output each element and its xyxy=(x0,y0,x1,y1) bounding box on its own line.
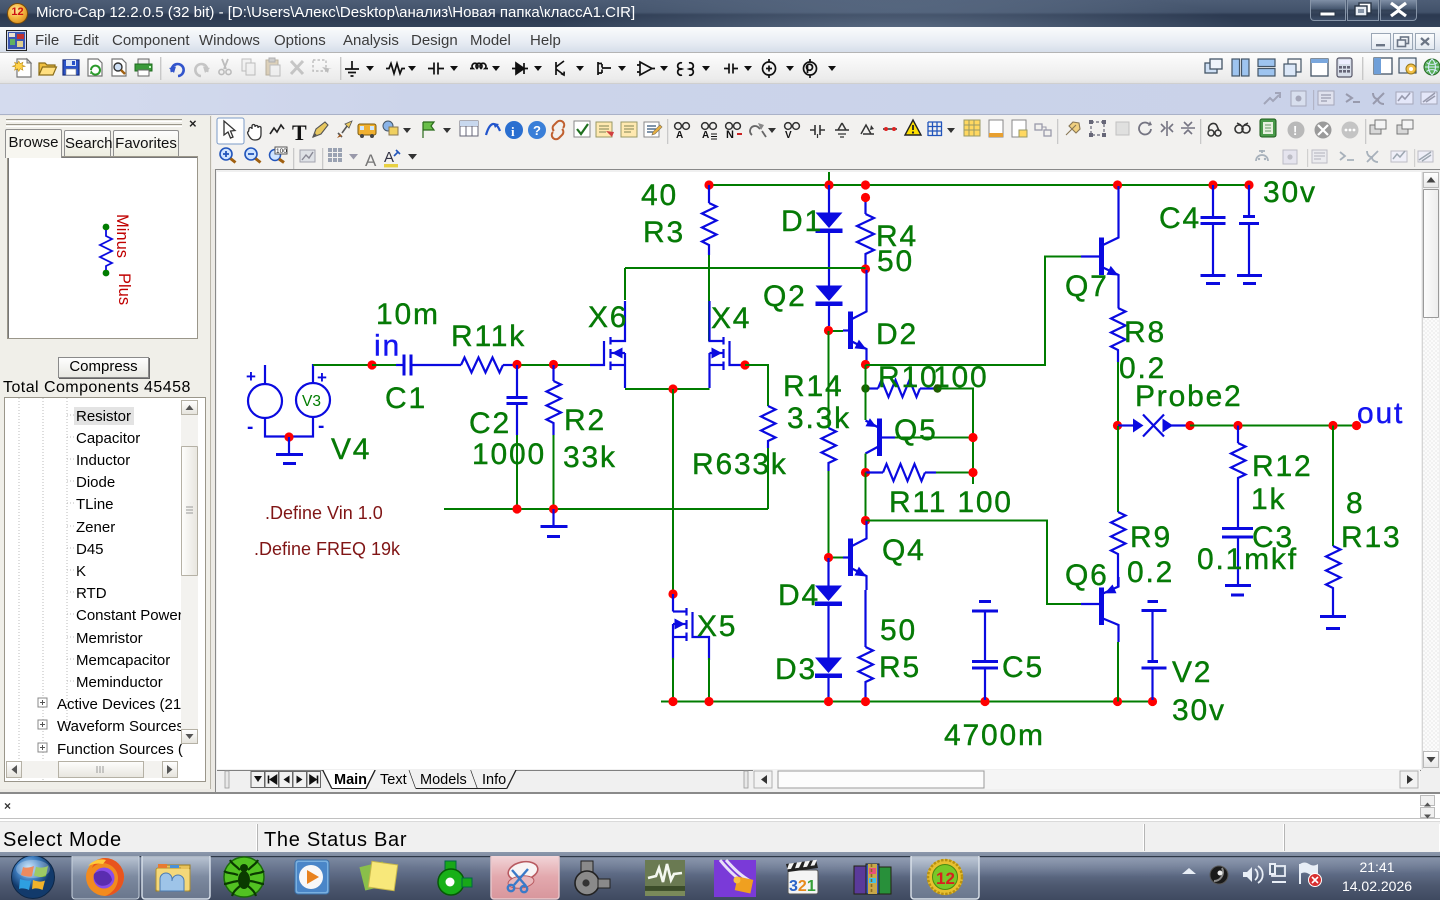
svg-text:-: - xyxy=(247,417,253,438)
row4 right grayed xyxy=(1256,149,1433,167)
wire R6 hook xyxy=(745,365,768,406)
svg-text:100: 100 xyxy=(276,148,287,155)
wire D2e to Q7 base xyxy=(866,257,1082,366)
resistor R6 xyxy=(761,406,776,509)
wire R10 right to Q5 base xyxy=(938,389,974,485)
ground mid xyxy=(541,509,568,537)
resistor R11 xyxy=(866,464,974,481)
mpc 321 xyxy=(786,860,818,895)
svg-text:D1: D1 xyxy=(781,205,823,238)
svg-text:Info: Info xyxy=(482,772,506,788)
node dot X4 gate xyxy=(740,360,749,369)
wire R3 to X4 drain xyxy=(708,255,710,341)
spider xyxy=(224,857,264,897)
svg-text:Models: Models xyxy=(420,772,467,788)
node dot probe left xyxy=(1113,421,1122,430)
node dot R12 top xyxy=(1233,421,1242,430)
svg-text:R11 100: R11 100 xyxy=(889,486,1013,519)
gray cam xyxy=(575,861,610,895)
dropdown arrows xyxy=(366,66,836,71)
svg-text:Resistor: Resistor xyxy=(76,408,131,425)
svg-text:14.02.2026: 14.02.2026 xyxy=(1342,878,1412,894)
wire tail down to X5 xyxy=(672,389,674,594)
resistor R4 xyxy=(857,198,874,266)
svg-text:Minus: Minus xyxy=(113,214,131,258)
svg-text:12: 12 xyxy=(936,869,955,888)
svg-text:50: 50 xyxy=(880,614,917,647)
save xyxy=(63,60,79,75)
resistor R2 xyxy=(547,365,562,509)
node dot R11 right xyxy=(968,468,977,477)
svg-text:Diode: Diode xyxy=(76,474,115,491)
node dot Q4 base / D4 top xyxy=(824,553,833,562)
svg-text:21:41: 21:41 xyxy=(1359,859,1394,875)
resistor R9 xyxy=(1111,426,1126,586)
svg-text:Q7: Q7 xyxy=(1065,270,1109,303)
animeter probe Probe2 xyxy=(1118,415,1190,437)
print xyxy=(135,59,152,76)
svg-text:R9: R9 xyxy=(1130,521,1172,554)
svg-text:Text: Text xyxy=(380,772,407,788)
diode Q2 xyxy=(816,286,843,327)
row3: select tool pressed xyxy=(217,118,244,144)
mosfet X6 xyxy=(590,301,625,388)
wire Q6 emitter to rail xyxy=(1117,642,1119,702)
mc doc icon xyxy=(6,30,27,51)
waveform tile xyxy=(645,860,685,896)
svg-text:K: K xyxy=(76,563,86,580)
svg-text:Probe2: Probe2 xyxy=(1135,380,1243,413)
resistor R10 xyxy=(866,380,937,397)
wire bottom negative rail xyxy=(661,701,1153,703)
source V4a xyxy=(246,365,313,438)
svg-text:R8: R8 xyxy=(1124,316,1166,349)
svg-text:X6: X6 xyxy=(588,301,628,334)
svg-text:R13: R13 xyxy=(1341,521,1401,554)
source V3 xyxy=(296,364,330,437)
new xyxy=(13,59,32,77)
svg-text:Q4: Q4 xyxy=(882,534,926,567)
wire out net xyxy=(1190,425,1357,427)
node dot out end xyxy=(1352,421,1361,430)
wire X5 source to rail xyxy=(672,658,674,702)
svg-text:A: A xyxy=(384,149,394,166)
node dot rail-Q7 xyxy=(1113,180,1122,189)
svg-text:3.3k: 3.3k xyxy=(787,402,851,435)
svg-text:Meminductor: Meminductor xyxy=(76,674,163,691)
capacitor C5 xyxy=(972,602,998,701)
mosfet X4 xyxy=(710,301,745,388)
svg-text:-: - xyxy=(318,416,324,437)
svg-text:in: in xyxy=(374,330,401,363)
svg-text:Memristor: Memristor xyxy=(76,630,143,647)
resistor R13 xyxy=(1326,546,1341,615)
svg-text:R12: R12 xyxy=(1252,450,1312,483)
title bar xyxy=(0,0,1440,27)
menu bar xyxy=(0,27,1440,53)
green valve xyxy=(438,861,472,895)
wire Q5 column upper xyxy=(865,365,867,420)
diode D1 xyxy=(816,185,843,286)
svg-text:1k: 1k xyxy=(1251,483,1286,516)
node dot rail-D1 xyxy=(824,180,833,189)
resistor R14 xyxy=(822,331,837,557)
node dot R4 top xyxy=(861,193,870,202)
tabs xyxy=(323,770,516,789)
node dark R10 left xyxy=(861,384,869,392)
wire R13 column xyxy=(1332,426,1334,547)
preview resistor symbol xyxy=(100,214,133,305)
svg-text:N: N xyxy=(726,129,734,141)
row 4 xyxy=(220,148,236,163)
node dot R11 left xyxy=(861,468,870,477)
capacitor C1 xyxy=(372,355,435,376)
svg-text:R10: R10 xyxy=(878,361,938,394)
paste gray xyxy=(266,58,280,76)
left panel xyxy=(0,116,211,789)
purple tile xyxy=(714,860,756,897)
resistor R8 xyxy=(1111,308,1126,425)
delete gray xyxy=(291,61,303,74)
node dot R2 bottom xyxy=(549,504,558,513)
speaker xyxy=(1243,866,1263,883)
node dot rail-R3 xyxy=(704,180,713,189)
wire stub above rail xyxy=(828,172,830,185)
revert xyxy=(88,59,102,76)
caption buttons xyxy=(1310,0,1346,21)
wire X6 drain vertical xyxy=(624,268,626,300)
node dot Q5 base xyxy=(968,433,977,442)
svg-text:?: ? xyxy=(533,123,541,138)
svg-text:1000: 1000 xyxy=(472,438,546,471)
svg-text:Main: Main xyxy=(334,772,367,788)
wire V3 to in xyxy=(313,364,372,366)
svg-text:50: 50 xyxy=(877,245,914,278)
capacitor C2 xyxy=(507,365,528,509)
node dot V4 gnd xyxy=(284,432,293,441)
node dark R10 right xyxy=(933,384,941,392)
svg-text:R5: R5 xyxy=(879,651,921,684)
svg-text:D4: D4 xyxy=(778,579,820,612)
svg-text:Plus: Plus xyxy=(115,273,133,305)
transistor Q6 (pnp) xyxy=(1047,577,1119,642)
node dot Q4 collector xyxy=(861,516,870,525)
diode D3 xyxy=(815,658,842,701)
firefox btn xyxy=(72,854,139,899)
svg-text:R14: R14 xyxy=(783,370,843,403)
node dot D2 emitter xyxy=(861,360,870,369)
svg-text:Active Devices (21): Active Devices (21) xyxy=(57,696,186,713)
svg-text:40: 40 xyxy=(641,179,678,212)
redo (gray) xyxy=(195,64,210,76)
resistor R12 xyxy=(1231,426,1246,528)
svg-text:+: + xyxy=(246,367,256,386)
flag xyxy=(1300,863,1322,887)
svg-text:30v: 30v xyxy=(1172,694,1226,727)
capacitor C4 xyxy=(1201,185,1226,284)
ground V4 xyxy=(276,437,303,464)
node dot X5 drain xyxy=(668,589,677,598)
svg-text:C5: C5 xyxy=(1002,651,1044,684)
svg-text:+: + xyxy=(317,368,327,387)
svg-text:8: 8 xyxy=(1346,487,1365,520)
open xyxy=(39,63,57,75)
transistor Q7 (npn) xyxy=(1081,186,1119,308)
svg-text:X5: X5 xyxy=(697,610,737,643)
node dot R2 top xyxy=(549,360,558,369)
svg-text:Memcapacitor: Memcapacitor xyxy=(76,652,170,669)
wire R1 to X6 gate xyxy=(517,364,590,366)
node dot tail xyxy=(668,384,677,393)
svg-text:R633k: R633k xyxy=(692,448,788,481)
svg-text:R11k: R11k xyxy=(451,320,526,353)
tray circle icon xyxy=(1210,866,1228,884)
microcap btn highlighted xyxy=(911,854,979,899)
svg-text:V2: V2 xyxy=(1172,656,1212,689)
transistor Q5 (pnp sideways) xyxy=(866,418,974,456)
ground below C3 xyxy=(1225,586,1251,596)
svg-text:Capacitor: Capacitor xyxy=(76,430,140,447)
wire X6 drain to R4 bottom xyxy=(625,267,866,269)
client bottom border with gap over Main tab xyxy=(217,770,1439,772)
svg-text:C2: C2 xyxy=(469,407,511,440)
winrar xyxy=(854,864,891,894)
sticky notes xyxy=(359,861,397,890)
svg-text:.Define FREQ 19k: .Define FREQ 19k xyxy=(254,539,401,559)
svg-text:V4: V4 xyxy=(331,433,371,466)
svg-text:.Define Vin 1.0: .Define Vin 1.0 xyxy=(265,503,383,523)
sep xyxy=(160,57,161,80)
network xyxy=(1269,863,1290,882)
svg-text:X4: X4 xyxy=(711,302,751,335)
undo xyxy=(169,64,184,76)
resistor R5 xyxy=(859,590,874,700)
svg-text:R2: R2 xyxy=(564,404,606,437)
diode D4 xyxy=(815,558,842,658)
mdi child buttons xyxy=(1371,33,1391,50)
svg-text:i: i xyxy=(511,124,515,139)
start orb xyxy=(12,856,55,899)
copy gray xyxy=(242,59,255,75)
svg-text:!: ! xyxy=(1293,123,1297,138)
mosfet X5 xyxy=(673,594,709,660)
explorer btn xyxy=(142,854,210,899)
capacitor C3 xyxy=(1222,529,1253,585)
svg-text:Zener: Zener xyxy=(76,519,115,536)
svg-text:T: T xyxy=(292,120,307,145)
svg-text:out: out xyxy=(1357,397,1404,430)
svg-text:R3: R3 xyxy=(643,216,685,249)
svg-text:Q6: Q6 xyxy=(1065,559,1109,592)
svg-text:10m: 10m xyxy=(376,298,440,331)
node dot in xyxy=(367,360,376,369)
capacitor C4b xyxy=(1237,185,1262,284)
node dot rail-C4b xyxy=(1244,180,1253,189)
schematic mdi child xyxy=(215,169,1440,793)
svg-text:30v: 30v xyxy=(1263,176,1317,209)
wire X5 gate to rail xyxy=(708,658,710,702)
node dot rail-C4a xyxy=(1208,180,1217,189)
window management icons xyxy=(1201,57,1440,80)
node dots bottom rail xyxy=(668,697,677,706)
cut gray xyxy=(219,59,231,75)
svg-text:A: A xyxy=(365,151,377,169)
resistor R3 xyxy=(702,185,717,255)
svg-text:33k: 33k xyxy=(563,441,617,474)
schematic h scrollbar xyxy=(753,770,1420,789)
panel h scrollbar xyxy=(6,761,178,778)
svg-text:4700m: 4700m xyxy=(944,719,1045,752)
wmp xyxy=(295,860,329,894)
svg-text:Q5: Q5 xyxy=(894,414,938,447)
scissors btn highlighted xyxy=(491,854,559,899)
ground below R13 xyxy=(1320,617,1346,629)
svg-text:0.2: 0.2 xyxy=(1127,556,1174,589)
svg-text:0.1mkf: 0.1mkf xyxy=(1197,543,1298,576)
tree v scrollbar xyxy=(181,400,198,744)
svg-text:D3: D3 xyxy=(775,653,817,686)
node dot probe right xyxy=(1185,421,1194,430)
component buttons xyxy=(345,59,817,78)
battery V2 xyxy=(1142,602,1167,701)
node dot C2 top xyxy=(512,360,521,369)
svg-text:D2: D2 xyxy=(876,318,918,351)
transistor D2 (npn) xyxy=(829,270,867,364)
wire X6/X4 sources join xyxy=(625,388,710,390)
svg-text:Function Sources (: Function Sources ( xyxy=(57,741,183,758)
node dot R13 top xyxy=(1328,421,1337,430)
wire Q5 collector down xyxy=(865,454,867,473)
svg-text:D45: D45 xyxy=(76,541,104,558)
svg-text:V: V xyxy=(785,130,792,141)
resistor R1 xyxy=(435,358,517,373)
select gray xyxy=(313,60,332,73)
node dot D2 base / R14 top xyxy=(824,326,833,335)
node dot C2 bottom xyxy=(512,504,521,513)
svg-text:321: 321 xyxy=(789,878,816,895)
node dot rail-R4 xyxy=(861,180,870,189)
svg-text:TLine: TLine xyxy=(76,496,114,513)
wire gnd rail mid xyxy=(444,508,768,510)
wire R11 column to Q4 xyxy=(865,473,867,521)
svg-text:RTD: RTD xyxy=(76,585,107,602)
transistor Q4 (npn) xyxy=(829,521,867,590)
svg-text:C4: C4 xyxy=(1159,202,1201,235)
wire to Q6 base xyxy=(866,521,1082,605)
svg-text:V3: V3 xyxy=(302,393,321,410)
svg-text:A: A xyxy=(676,130,683,141)
svg-text:C1: C1 xyxy=(385,382,427,415)
svg-text:Constant Power: Constant Power xyxy=(76,607,183,624)
svg-text:A: A xyxy=(702,130,709,141)
svg-text:Inductor: Inductor xyxy=(76,452,130,469)
svg-text:Waveform Sources: Waveform Sources xyxy=(57,718,184,735)
wire top rail 30v xyxy=(709,184,1249,186)
node dot R4 bottom xyxy=(861,264,870,273)
preview xyxy=(112,59,126,76)
svg-text:Q2: Q2 xyxy=(763,280,807,313)
